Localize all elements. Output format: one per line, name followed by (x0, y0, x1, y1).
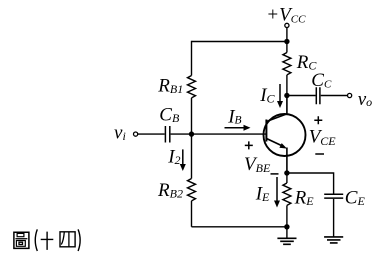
label vi (114, 123, 126, 144)
node VCC junction (284, 39, 289, 44)
current arrow IB (225, 125, 251, 131)
resistor RB1 (188, 76, 196, 98)
wire RE to bottom node (286, 205, 288, 226)
input terminal vi (134, 132, 138, 136)
wire input to CB (138, 133, 165, 135)
current arrow I2 (180, 149, 186, 171)
label +VCC (266, 5, 306, 26)
label RB2 (157, 180, 183, 201)
label RE (294, 188, 315, 209)
ground below RE (277, 238, 296, 244)
label CC (311, 70, 332, 91)
node E emitter junction (284, 170, 289, 175)
label VBE plus (245, 141, 253, 149)
current arrow IE (274, 177, 280, 208)
label RB1 (157, 76, 183, 97)
transistor Q1 (264, 114, 306, 156)
wire CC to output (321, 95, 348, 97)
wire emitter node to CE (287, 173, 334, 194)
wire CE to ground (333, 199, 335, 237)
label IB (227, 106, 241, 127)
label IC (259, 85, 275, 106)
current arrow IC (277, 84, 283, 108)
wire collector node to transistor (286, 96, 288, 115)
label I2 (167, 147, 180, 168)
resistor RB2 (188, 179, 196, 201)
power terminal +VCC (285, 23, 289, 27)
label VCE plus (314, 116, 322, 124)
resistor RE (283, 183, 291, 205)
capacitor CC (316, 87, 320, 104)
wire base node to transistor (192, 133, 266, 135)
label VCE (309, 126, 337, 148)
wire left rail middle (191, 98, 193, 179)
label IE (255, 184, 270, 205)
capacitor CB (165, 126, 169, 143)
wire left rail upper (191, 41, 193, 76)
wire ground stub RE (286, 227, 288, 239)
wire top rail (192, 41, 287, 43)
node RE bottom junction (284, 224, 289, 229)
label VCE minus (315, 153, 324, 155)
label CB (159, 105, 180, 126)
wire emitter node to RE (286, 173, 288, 183)
label VBE minus (271, 173, 279, 175)
label vo (358, 89, 372, 110)
ground below CE (324, 237, 343, 243)
wire emitter (286, 148, 288, 174)
wire VCC stub (286, 28, 288, 42)
wire RC to collector node (286, 75, 288, 96)
label CE (345, 188, 366, 209)
output terminal vo (348, 93, 352, 97)
label RC (296, 52, 318, 73)
wire collector node to CC (287, 95, 316, 97)
wire CB to base node (171, 133, 192, 135)
wire rail to RC (286, 42, 288, 53)
label VBE (244, 154, 271, 175)
node C collector junction (284, 93, 289, 98)
resistor RC (283, 53, 291, 75)
wire bottom rail (192, 226, 287, 228)
capacitor CE (324, 194, 343, 198)
caption 圖(十四) (14, 229, 80, 251)
wire left rail lower (191, 201, 193, 227)
node B base junction (189, 131, 194, 136)
